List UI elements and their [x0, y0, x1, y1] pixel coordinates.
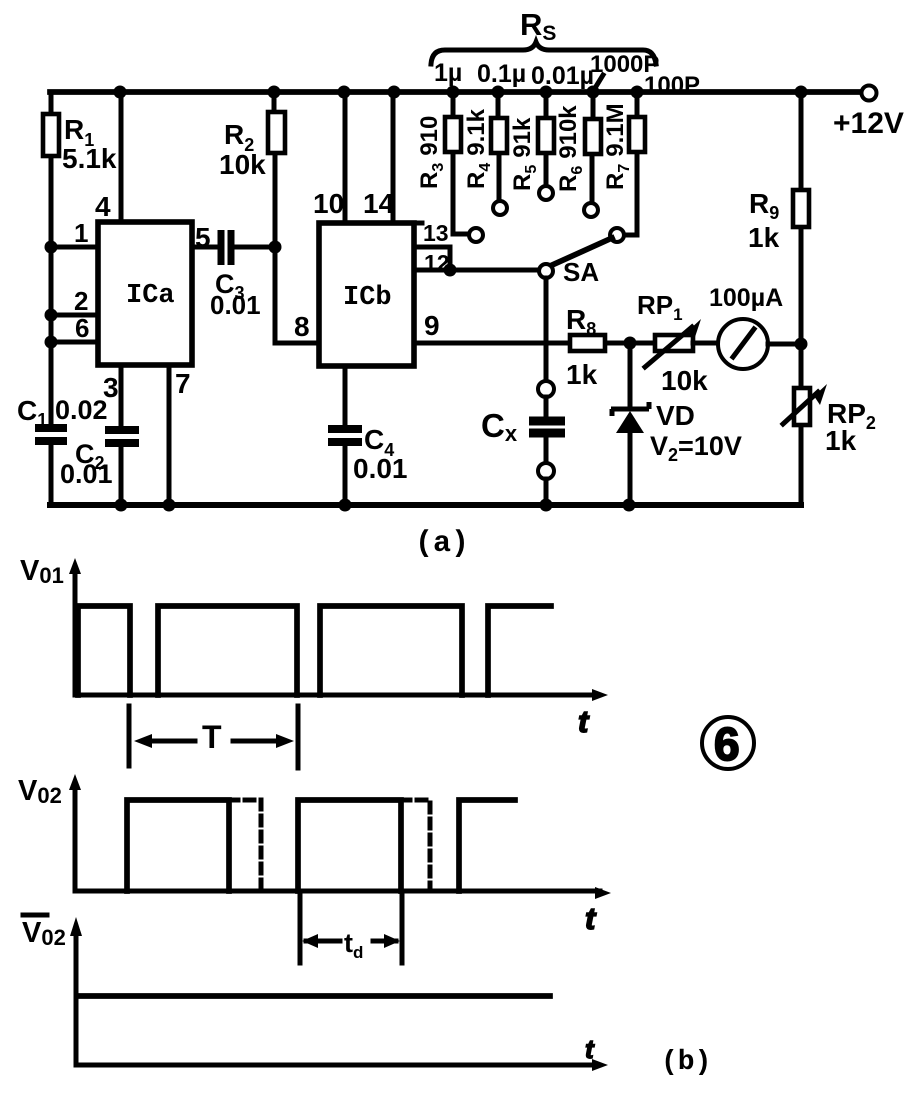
dimension T right arrow [233, 734, 294, 748]
svg-text:5.1k: 5.1k [62, 143, 117, 174]
svg-text:0.01: 0.01 [353, 453, 408, 484]
resistor R9 [793, 92, 809, 344]
op-amp ICb timer block [319, 223, 414, 366]
svg-text:T: T [202, 719, 222, 755]
resistor R5 [538, 92, 554, 185]
svg-text:+12V: +12V [833, 107, 904, 140]
svg-text:VD: VD [656, 400, 695, 431]
leader line 1000P to tap [592, 75, 603, 93]
resistor R3 [445, 92, 468, 234]
meter 100uA [718, 319, 768, 369]
wire ICa pin2 [51, 313, 98, 318]
wire ICb pin9 [414, 341, 655, 346]
svg-text:V2=10V: V2=10V [650, 431, 742, 465]
node junction bottom rail pin7 [163, 499, 176, 512]
wire ICb pin13 loop to pin12 node [414, 247, 450, 270]
op-amp ICa timer block [98, 222, 192, 365]
node junction top rail R6 tap [587, 86, 600, 99]
resistor R6 [585, 92, 601, 202]
svg-text:6: 6 [714, 718, 740, 770]
svg-text:2: 2 [74, 286, 88, 316]
waveform V02bar high level trace [79, 993, 550, 999]
waveform V01 trace [78, 606, 551, 695]
svg-text:0.01: 0.01 [60, 459, 113, 489]
svg-text:7: 7 [175, 368, 191, 399]
wire R2/C3 node to ICb pin8 [275, 247, 319, 343]
wire ICa pin3 riser [119, 365, 124, 505]
svg-text:0.02: 0.02 [55, 395, 108, 425]
dimension T right tick [296, 706, 301, 768]
node junction pin6 [45, 336, 58, 349]
svg-text:SA: SA [563, 257, 599, 287]
svg-text:10k: 10k [661, 365, 708, 396]
svg-text:0.1µ: 0.1µ [477, 60, 526, 88]
resistor R1 [43, 92, 59, 247]
svg-text:1k: 1k [825, 425, 857, 456]
node junction top rail R2 [268, 86, 281, 99]
node junction pin2 [45, 309, 58, 322]
potentiometer RP1 [645, 319, 701, 367]
wire ICb pin13 stub [414, 221, 422, 226]
wire ICa pin4 riser [119, 92, 124, 222]
svg-text:R6910k: R6910k [555, 105, 586, 192]
wire SA pivot down to Cx [544, 278, 549, 381]
waveform V02 trace [127, 800, 515, 891]
resistor R4 [491, 92, 507, 200]
node junction C3/R2 [269, 241, 282, 254]
resistor R2 [268, 92, 285, 247]
wire meter to R9 column [768, 342, 801, 347]
svg-text:t: t [578, 704, 590, 739]
svg-text:ICb: ICb [343, 283, 392, 313]
svg-text:(b): (b) [661, 1047, 711, 1078]
capacitor Cx with terminals [529, 381, 565, 505]
svg-text:14: 14 [363, 188, 395, 219]
svg-text:3: 3 [103, 372, 119, 403]
capacitor C1 [35, 428, 67, 441]
wire ICa pin5 [192, 245, 218, 250]
label V02 bar [22, 915, 66, 950]
svg-text:0.01: 0.01 [210, 290, 261, 320]
waveform V01 axes [69, 558, 608, 701]
capacitor C3 [221, 230, 231, 265]
svg-text:R591k: R591k [509, 117, 540, 191]
brace over range capacitor values [431, 42, 656, 64]
wire top +12V rail [50, 89, 868, 95]
wire ICa pin1 [51, 245, 98, 250]
switch contact R7 [610, 228, 624, 242]
terminal +12V [862, 86, 877, 101]
wire ICb pin10 riser [343, 92, 348, 223]
node junction bottom rail C4 [339, 499, 352, 512]
wire left column pins 1,2,6 to C1 [49, 247, 54, 505]
node junction top rail R5 tap [540, 86, 553, 99]
svg-text:1k: 1k [566, 359, 598, 390]
svg-text:1: 1 [74, 218, 88, 248]
waveform V02 axes [69, 774, 611, 899]
dimension T left arrow [134, 734, 195, 748]
wire C3 to node [235, 245, 275, 250]
switch contact R4 [493, 201, 507, 215]
svg-text:0.01µ: 0.01µ [531, 62, 594, 90]
diode VD zener [611, 343, 649, 505]
waveform V02bar axes [70, 917, 608, 1071]
node junction top rail R9 column [795, 86, 808, 99]
switch contact R5 [539, 186, 553, 200]
switch contact R3 [469, 228, 483, 242]
svg-text:13: 13 [423, 220, 449, 246]
capacitor C4 [328, 429, 362, 442]
resistor R7 [625, 92, 645, 235]
wire ICb pin14 riser [391, 92, 396, 223]
wire ICa pin6 [51, 340, 98, 345]
svg-text:1µ: 1µ [434, 59, 462, 87]
svg-text:4: 4 [95, 191, 111, 222]
node junction R8/RP1/VD [624, 337, 637, 350]
switch SA pivot [539, 264, 553, 278]
potentiometer RP2 [783, 344, 827, 505]
svg-text:100P: 100P [644, 72, 700, 99]
svg-text:8: 8 [294, 311, 310, 342]
figure number 6 circled [702, 717, 754, 770]
svg-text:ICa: ICa [126, 281, 175, 311]
wire bottom rail [50, 502, 801, 508]
dimension td right arrow [373, 934, 400, 948]
svg-text:100µA: 100µA [709, 284, 783, 312]
wire RP1 to meter [693, 341, 718, 346]
svg-text:R3910: R3910 [416, 116, 447, 189]
svg-text:R49.1k: R49.1k [463, 108, 494, 189]
node junction pin1 [45, 241, 58, 254]
node junction top rail R3 tap [447, 86, 460, 99]
svg-text:(a): (a) [415, 527, 469, 561]
dimension td right tick [400, 896, 405, 963]
node junction top rail ICb pin14 column [388, 86, 401, 99]
node junction meter/R9/RP2 [795, 338, 808, 351]
svg-text:10: 10 [313, 188, 344, 219]
wire ICb bottom riser to C4 [343, 366, 348, 505]
dimension td left tick [298, 896, 303, 963]
svg-text:5: 5 [195, 222, 211, 253]
node junction pin12/pin13 [444, 264, 457, 277]
svg-text:t: t [585, 1034, 595, 1064]
waveform V02 dashed segments [229, 800, 430, 891]
svg-text:10k: 10k [219, 149, 266, 180]
capacitor C2 [105, 430, 139, 443]
switch SA arm [550, 238, 612, 266]
node junction bottom rail C2 [115, 499, 128, 512]
node junction top rail R4 tap [492, 86, 505, 99]
svg-text:R79.1M: R79.1M [602, 103, 633, 190]
svg-text:6: 6 [75, 313, 89, 343]
switch contact R6 [584, 203, 598, 217]
node junction top rail ICa pin4 column [114, 86, 127, 99]
node junction bottom rail VD [623, 499, 636, 512]
dimension T left tick [127, 706, 132, 766]
node junction bottom rail Cx [540, 499, 553, 512]
node junction top rail ICb pin10 column [338, 86, 351, 99]
svg-text:1k: 1k [748, 222, 780, 253]
node junction top rail R7 tap [631, 86, 644, 99]
resistor R8 [570, 335, 605, 351]
svg-text:t: t [585, 901, 597, 936]
dimension td left arrow [302, 934, 340, 948]
wire ICa pin7 riser [167, 365, 172, 505]
svg-text:9: 9 [424, 310, 440, 341]
wire ICb pin12 to switch pivot [414, 268, 539, 273]
